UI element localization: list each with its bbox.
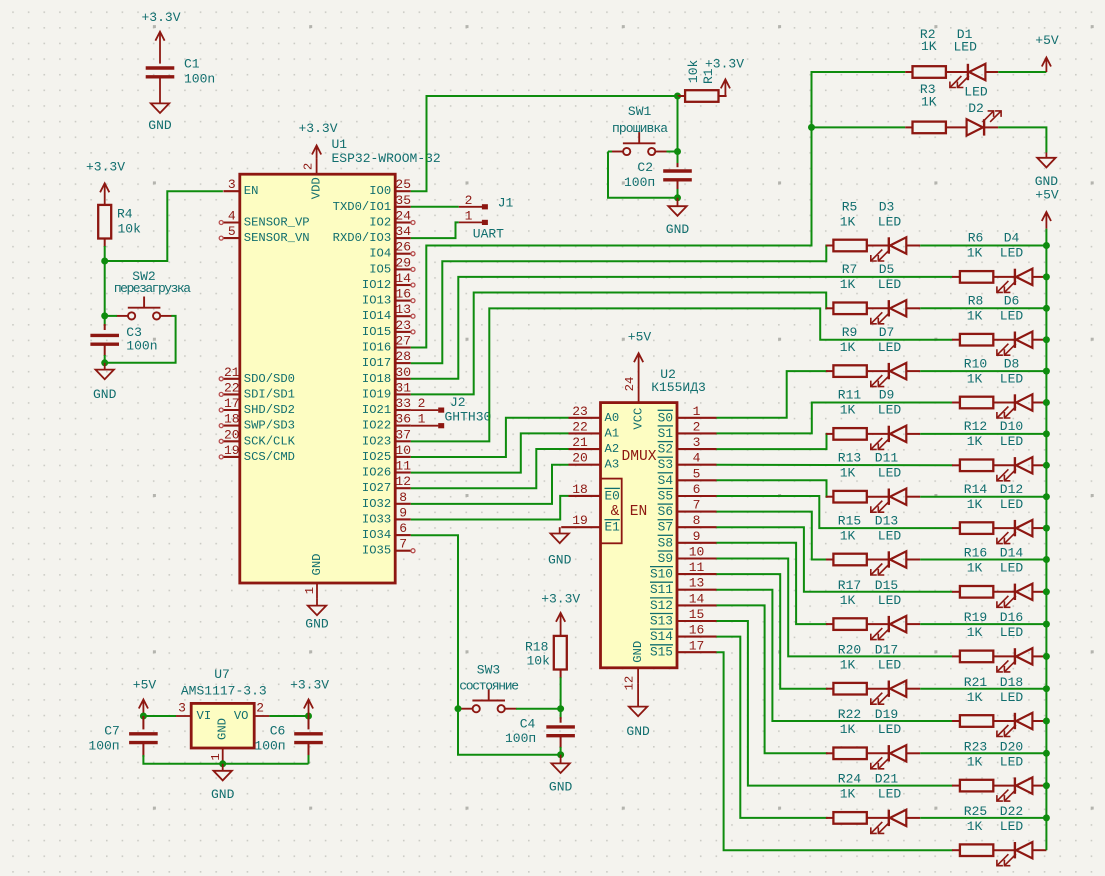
svg-text:R6: R6 — [968, 231, 984, 246]
wire — [717, 605, 828, 753]
svg-text:LED: LED — [878, 722, 902, 737]
LED D3 — [871, 237, 907, 261]
wire — [411, 96, 678, 191]
svg-text:28: 28 — [395, 349, 411, 364]
wire — [105, 316, 176, 363]
wire — [411, 206, 459, 208]
svg-text:DMUX: DMUX — [621, 449, 656, 465]
svg-text:17: 17 — [689, 638, 705, 653]
resistor R4 — [98, 205, 141, 239]
svg-text:GND: GND — [549, 779, 573, 794]
svg-text:U7: U7 — [214, 667, 230, 682]
svg-text:S0: S0 — [658, 410, 673, 425]
junction — [1043, 399, 1050, 406]
svg-text:+3.3V: +3.3V — [705, 57, 744, 72]
svg-text:R10: R10 — [964, 356, 987, 371]
svg-text:1: 1 — [693, 404, 701, 419]
svg-text:S14: S14 — [650, 629, 673, 644]
svg-text:D12: D12 — [1000, 482, 1023, 497]
svg-text:9: 9 — [399, 505, 407, 520]
svg-text:2: 2 — [693, 419, 701, 434]
svg-text:LED: LED — [878, 340, 902, 355]
svg-text:IO21: IO21 — [362, 403, 391, 417]
svg-text:SDI/SD1: SDI/SD1 — [244, 387, 295, 401]
ground — [305, 606, 329, 632]
wire — [411, 246, 828, 364]
svg-text:C7: C7 — [104, 724, 120, 739]
resistor R17 — [833, 618, 866, 630]
svg-text:D20: D20 — [1000, 739, 1023, 754]
junction — [1043, 525, 1050, 532]
svg-text:R22: R22 — [838, 707, 861, 722]
op-amp U2 К155ИД3 — [561, 367, 716, 691]
svg-text:LED: LED — [878, 277, 902, 292]
resistor R25 — [960, 844, 993, 856]
power +3.3V (R1) — [705, 57, 744, 97]
svg-text:перезагрузка: перезагрузка — [114, 281, 191, 296]
wire — [411, 293, 828, 395]
wire — [516, 708, 561, 710]
junction — [1043, 430, 1050, 437]
svg-text:1K: 1K — [967, 819, 983, 834]
svg-text:LED: LED — [1000, 246, 1024, 261]
svg-text:D6: D6 — [1004, 294, 1020, 309]
svg-text:LED: LED — [1000, 434, 1024, 449]
junction — [1043, 273, 1050, 280]
label R9 — [840, 325, 902, 355]
svg-text:+3.3V: +3.3V — [290, 678, 329, 693]
LED D14 — [997, 584, 1033, 608]
svg-text:S6: S6 — [658, 504, 673, 519]
svg-text:LED: LED — [878, 403, 902, 418]
svg-text:A2: A2 — [605, 442, 620, 456]
svg-text:S12: S12 — [650, 598, 673, 613]
svg-text:S3: S3 — [658, 457, 673, 472]
LED D1 — [950, 64, 986, 88]
svg-text:6: 6 — [693, 482, 701, 497]
svg-text:IO2: IO2 — [369, 216, 391, 230]
svg-text:D18: D18 — [1000, 675, 1023, 690]
svg-text:C4: C4 — [520, 716, 536, 731]
svg-text:D2: D2 — [968, 101, 984, 116]
connector J1 UART — [459, 193, 514, 242]
svg-text:S9: S9 — [658, 551, 673, 566]
resistor R21 — [960, 715, 993, 727]
svg-text:GND: GND — [548, 552, 572, 567]
svg-text:5: 5 — [693, 466, 701, 481]
svg-text:30: 30 — [395, 365, 411, 380]
resistor R20 — [833, 683, 866, 695]
junction — [219, 760, 226, 767]
power +3.3V (U1 VDD) — [298, 121, 337, 159]
svg-text:+3.3V: +3.3V — [86, 160, 125, 175]
svg-text:SENSOR_VP: SENSOR_VP — [244, 216, 310, 230]
LED D18 — [997, 713, 1033, 737]
svg-text:10k: 10k — [118, 221, 142, 236]
capacitor C3 — [90, 335, 119, 344]
svg-text:19: 19 — [572, 513, 588, 528]
label C2 — [624, 160, 655, 190]
svg-text:22: 22 — [224, 380, 240, 395]
junction — [1043, 718, 1050, 725]
svg-text:SDO/SD0: SDO/SD0 — [244, 372, 295, 386]
wire — [560, 747, 562, 755]
svg-text:R23: R23 — [964, 739, 987, 754]
wire — [143, 715, 176, 717]
wire — [920, 559, 1046, 561]
resistor R23 — [960, 780, 993, 792]
junction — [1043, 750, 1050, 757]
svg-text:+5V: +5V — [1035, 187, 1059, 202]
svg-text:состояние: состояние — [459, 679, 518, 694]
ground — [666, 206, 690, 237]
junction — [557, 705, 564, 712]
svg-text:R17: R17 — [838, 578, 861, 593]
svg-text:+5V: +5V — [133, 678, 157, 693]
svg-text:AMS1117-3.3: AMS1117-3.3 — [181, 684, 267, 699]
svg-text:10: 10 — [689, 545, 705, 560]
resistor R2 — [913, 66, 946, 78]
svg-text:15: 15 — [689, 607, 705, 622]
wire — [717, 464, 953, 467]
wire — [104, 246, 106, 316]
label C7 — [88, 724, 119, 754]
switch SW1 прошивка — [612, 104, 669, 155]
svg-text:LED: LED — [1000, 309, 1024, 324]
wire — [159, 77, 161, 104]
svg-text:D13: D13 — [875, 513, 898, 528]
svg-text:D7: D7 — [879, 325, 895, 340]
LED D11 — [871, 489, 907, 513]
wire — [608, 152, 678, 198]
ground — [1035, 158, 1059, 189]
label R15 — [838, 513, 902, 543]
svg-text:SHD/SD2: SHD/SD2 — [244, 403, 295, 417]
svg-text:11: 11 — [395, 459, 411, 474]
label R19 — [964, 610, 1024, 640]
svg-text:IO33: IO33 — [362, 512, 391, 526]
svg-text:A0: A0 — [605, 411, 620, 425]
svg-text:+5V: +5V — [628, 330, 652, 345]
svg-text:GHTH30: GHTH30 — [444, 410, 491, 425]
ground — [93, 370, 117, 402]
svg-text:GND: GND — [631, 641, 645, 663]
svg-text:LED: LED — [1000, 371, 1024, 386]
capacitor C1 — [146, 68, 175, 77]
svg-text:1K: 1K — [967, 690, 983, 705]
wire — [411, 222, 459, 238]
wire — [920, 433, 1046, 435]
LED D7 — [871, 363, 907, 387]
svg-text:IO22: IO22 — [362, 419, 391, 433]
label R21 — [964, 675, 1024, 705]
svg-text:25: 25 — [395, 177, 411, 192]
svg-text:8: 8 — [693, 513, 701, 528]
resistor R9 — [833, 365, 866, 377]
svg-text:1K: 1K — [967, 497, 983, 512]
LED D8 — [997, 394, 1033, 418]
junction — [1043, 368, 1050, 375]
svg-text:10: 10 — [395, 443, 411, 458]
label R13 — [838, 451, 902, 481]
svg-text:LED: LED — [1000, 497, 1024, 512]
svg-text:U1: U1 — [332, 137, 348, 152]
wire — [717, 559, 953, 657]
svg-text:27: 27 — [395, 334, 411, 349]
svg-text:29: 29 — [395, 255, 411, 270]
LED D2 — [967, 111, 1002, 136]
resistor R10 — [960, 397, 993, 409]
wire — [411, 496, 569, 520]
svg-text:11: 11 — [689, 560, 705, 575]
power +3.3V (R4) — [86, 160, 125, 206]
svg-text:2: 2 — [418, 396, 426, 411]
svg-text:21: 21 — [572, 435, 588, 450]
svg-text:1: 1 — [209, 753, 223, 760]
wire — [458, 708, 462, 710]
power +3.3V (C6) — [290, 678, 329, 717]
wire — [560, 677, 562, 709]
svg-text:100п: 100п — [254, 739, 285, 754]
svg-text:1K: 1K — [840, 214, 856, 229]
svg-text:R20: R20 — [838, 643, 861, 658]
resistor R15 — [833, 554, 866, 566]
svg-text:&: & — [611, 504, 620, 520]
label R17 — [838, 578, 902, 608]
svg-text:1K: 1K — [967, 754, 983, 769]
svg-text:1K: 1K — [840, 277, 856, 292]
svg-text:18: 18 — [224, 412, 240, 427]
svg-text:LED: LED — [1000, 625, 1024, 640]
svg-text:D14: D14 — [1000, 546, 1024, 561]
LED D15 — [871, 616, 907, 640]
svg-text:RXD0/IO3: RXD0/IO3 — [333, 231, 392, 245]
svg-text:LED: LED — [1000, 819, 1024, 834]
svg-text:C2: C2 — [637, 160, 653, 175]
svg-text:14: 14 — [689, 591, 705, 606]
resistor R8 — [960, 334, 993, 346]
svg-text:R9: R9 — [842, 325, 858, 340]
resistor R16 — [960, 586, 993, 598]
svg-text:19: 19 — [224, 443, 240, 458]
wire — [560, 709, 562, 719]
svg-text:1K: 1K — [840, 787, 856, 802]
svg-text:10k: 10k — [686, 60, 701, 84]
svg-text:3: 3 — [228, 177, 236, 192]
svg-text:LED: LED — [964, 85, 988, 100]
connector J2 GHTH30 — [411, 395, 492, 428]
svg-text:+3.3V: +3.3V — [541, 592, 580, 607]
wire — [105, 315, 117, 317]
resistor R18 — [525, 636, 567, 670]
wire — [920, 245, 1046, 247]
junction — [1043, 336, 1050, 343]
resistor R7 — [833, 303, 866, 315]
svg-text:IO14: IO14 — [362, 309, 391, 323]
label R6 — [967, 231, 1024, 261]
regulator U7 AMS1117-3.3 — [176, 667, 269, 764]
svg-text:37: 37 — [395, 427, 411, 442]
svg-text:34: 34 — [395, 224, 411, 239]
svg-text:23: 23 — [395, 318, 411, 333]
wire — [608, 151, 612, 153]
wire — [411, 535, 458, 709]
svg-text:SW1: SW1 — [628, 104, 652, 119]
svg-text:LED: LED — [878, 787, 902, 802]
wire — [717, 543, 828, 624]
wire — [717, 434, 828, 449]
LED D13 — [871, 551, 907, 575]
svg-text:IO25: IO25 — [362, 450, 391, 464]
svg-text:10k: 10k — [527, 654, 551, 669]
wire — [411, 449, 569, 488]
label R3 — [920, 82, 988, 116]
junction — [674, 194, 681, 201]
wire — [717, 590, 953, 721]
capacitor C4 — [546, 727, 575, 736]
label R5 — [840, 199, 902, 229]
svg-text:GND: GND — [305, 616, 329, 631]
svg-text:R15: R15 — [838, 513, 861, 528]
svg-text:GND: GND — [310, 554, 324, 576]
LED D16 — [997, 648, 1033, 672]
svg-text:14: 14 — [395, 271, 411, 286]
wire — [104, 355, 106, 363]
svg-text:7: 7 — [399, 537, 407, 552]
svg-text:GND: GND — [626, 724, 650, 739]
resistor R6 — [960, 271, 993, 283]
svg-text:IO15: IO15 — [362, 325, 391, 339]
svg-text:26: 26 — [395, 240, 411, 255]
svg-text:+3.3V: +3.3V — [298, 121, 337, 136]
junction — [557, 751, 564, 758]
LED D20 — [997, 777, 1033, 801]
svg-text:18: 18 — [572, 482, 588, 497]
svg-text:S8: S8 — [658, 535, 673, 550]
resistor R11 — [833, 428, 866, 440]
svg-text:IO27: IO27 — [362, 481, 391, 495]
svg-text:IO35: IO35 — [362, 544, 391, 558]
power +5V (D1) — [1035, 33, 1059, 72]
svg-text:IO13: IO13 — [362, 294, 391, 308]
wire — [717, 496, 953, 528]
wire — [1045, 229, 1047, 818]
LED D4 — [997, 269, 1033, 293]
svg-text:VO: VO — [234, 709, 249, 723]
svg-text:R25: R25 — [964, 804, 987, 819]
capacitor C7 — [129, 734, 158, 743]
junction — [101, 359, 108, 366]
svg-text:D21: D21 — [875, 772, 899, 787]
junction — [1043, 621, 1050, 628]
junction — [674, 93, 681, 100]
wire — [717, 480, 828, 496]
wire — [920, 496, 1046, 498]
LED D9 — [871, 426, 907, 450]
svg-text:LED: LED — [953, 39, 977, 54]
LED D17 — [871, 681, 907, 705]
svg-text:A3: A3 — [605, 458, 620, 472]
label R20 — [838, 643, 902, 673]
svg-text:LED: LED — [878, 214, 902, 229]
wire — [105, 191, 223, 261]
svg-text:VDD: VDD — [310, 177, 324, 199]
svg-text:D4: D4 — [1004, 231, 1020, 246]
svg-text:R7: R7 — [842, 262, 858, 277]
junction — [1043, 493, 1050, 500]
wire — [920, 370, 1046, 372]
svg-text:8: 8 — [399, 490, 407, 505]
junction — [101, 312, 108, 319]
svg-text:1K: 1K — [840, 722, 856, 737]
svg-text:100п: 100п — [88, 739, 119, 754]
capacitor C6 — [294, 734, 323, 743]
svg-text:2: 2 — [301, 163, 315, 170]
junction — [1043, 653, 1050, 660]
svg-text:SENSOR_VN: SENSOR_VN — [244, 231, 310, 245]
svg-text:SWP/SD3: SWP/SD3 — [244, 419, 295, 433]
wire — [998, 71, 1046, 73]
resistor R3 — [913, 122, 946, 134]
svg-text:1K: 1K — [921, 39, 937, 54]
svg-text:1K: 1K — [967, 371, 983, 386]
svg-text:1: 1 — [418, 412, 426, 427]
svg-text:1: 1 — [465, 208, 473, 223]
wire — [920, 752, 1046, 754]
label R16 — [964, 546, 1024, 576]
svg-text:IO12: IO12 — [362, 278, 391, 292]
svg-text:IO18: IO18 — [362, 372, 391, 386]
wire — [269, 715, 308, 717]
wire — [717, 574, 828, 689]
resistor R19 — [960, 651, 993, 663]
svg-text:22: 22 — [572, 419, 588, 434]
svg-text:D3: D3 — [879, 199, 895, 214]
svg-text:GND: GND — [216, 718, 230, 740]
wire — [920, 307, 1046, 309]
wire — [677, 96, 679, 165]
label R1 — [686, 60, 716, 85]
label C3 — [126, 325, 157, 353]
ground — [626, 707, 650, 739]
wire — [717, 403, 953, 434]
junction — [1043, 782, 1050, 789]
svg-text:1K: 1K — [840, 593, 856, 608]
svg-text:S7: S7 — [658, 520, 673, 535]
svg-text:IO23: IO23 — [362, 434, 391, 448]
wire — [717, 512, 828, 560]
svg-text:D19: D19 — [875, 707, 898, 722]
svg-text:GND: GND — [211, 787, 235, 802]
wire — [411, 418, 569, 457]
svg-text:13: 13 — [689, 576, 705, 591]
svg-text:EN: EN — [244, 184, 259, 198]
label C1 — [184, 57, 215, 87]
svg-text:20: 20 — [224, 427, 240, 442]
svg-text:ESP32-WROOM-32: ESP32-WROOM-32 — [332, 151, 441, 166]
svg-text:E1: E1 — [605, 520, 621, 535]
svg-text:2: 2 — [256, 701, 264, 716]
svg-text:1K: 1K — [967, 309, 983, 324]
svg-text:R14: R14 — [964, 482, 988, 497]
power +3.3V (C1) — [141, 10, 180, 64]
label R10 — [964, 356, 1024, 386]
ground (E1) — [559, 527, 561, 533]
svg-text:R4: R4 — [117, 207, 133, 222]
wire — [717, 652, 953, 850]
svg-text:К155ИД3: К155ИД3 — [651, 380, 706, 395]
svg-text:LED: LED — [1000, 561, 1024, 576]
